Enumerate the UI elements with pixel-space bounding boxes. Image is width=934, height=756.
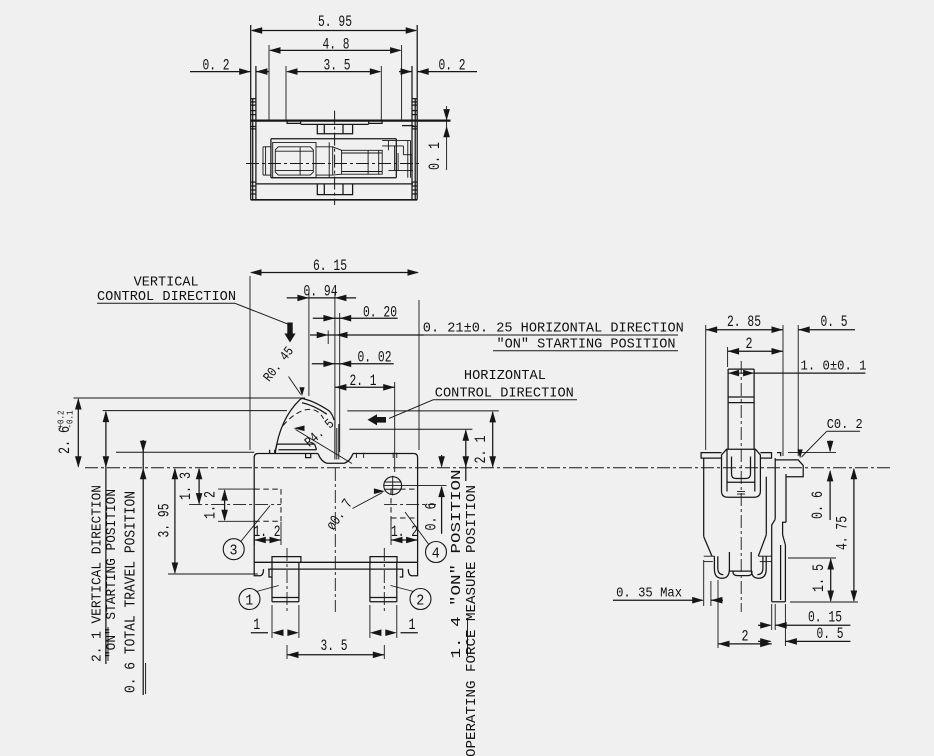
- front body top notch: [318, 454, 353, 464]
- svg-text:2: 2: [742, 627, 749, 645]
- side under clip: [729, 571, 752, 576]
- terminal leg 1: [272, 548, 299, 612]
- svg-text:C0. 2: C0. 2: [827, 417, 863, 433]
- top view left end contact: [263, 147, 271, 175]
- side right foot: [751, 552, 766, 578]
- side seating flange right: [758, 556, 771, 561]
- label operating force measure position: [464, 485, 480, 756]
- top view horizontal centerline: [246, 163, 421, 165]
- label R0.45: [261, 345, 304, 397]
- side post: [728, 369, 754, 449]
- dim 2 bottom: [718, 580, 772, 648]
- dim 0.1: [426, 106, 450, 170]
- dim 4.75: [790, 468, 858, 602]
- side body left wall: [704, 458, 712, 556]
- svg-text:1: 1: [253, 616, 260, 634]
- balloon 1: [239, 586, 279, 610]
- dim 1.2 right horizontal: [391, 520, 418, 545]
- svg-text:HORIZONTAL: HORIZONTAL: [464, 368, 546, 384]
- svg-text:1. 5: 1. 5: [810, 564, 828, 592]
- svg-text:0. 5: 0. 5: [817, 625, 844, 643]
- svg-text:3. 5: 3. 5: [321, 637, 348, 655]
- svg-text:1. 2: 1. 2: [254, 523, 281, 541]
- dim 3.95: [156, 468, 259, 574]
- balloon 3: [223, 506, 270, 560]
- side seating flange left: [704, 556, 715, 561]
- dim 0.15: [758, 604, 850, 630]
- label horizontal control direction: [389, 368, 577, 418]
- left contact dashed box: [189, 489, 281, 521]
- svg-text:5. 95: 5. 95: [318, 13, 352, 31]
- side clip: [722, 449, 761, 497]
- lever base: [270, 444, 317, 453]
- dim 0.5 top: [798, 313, 855, 456]
- on start level line left: [103, 410, 287, 412]
- svg-text:4. 75: 4. 75: [833, 516, 851, 550]
- side right tab: [760, 453, 780, 459]
- svg-text:4. 8: 4. 8: [323, 36, 350, 54]
- side right plate: [772, 458, 804, 545]
- body top level line left: [116, 451, 254, 453]
- svg-text:1. 2: 1. 2: [391, 523, 418, 541]
- on start level line right: [347, 410, 499, 412]
- dim 0.21 leader: [310, 331, 424, 345]
- label 0.21 horizontal direction: [423, 321, 684, 353]
- svg-text:R0. 45: R0. 45: [261, 345, 297, 386]
- dim 0.5 bottom: [758, 604, 850, 646]
- svg-text:-0.1: -0.1: [65, 410, 76, 428]
- dim 0.02: [312, 349, 394, 368]
- dim 1.2 left horizontal: [254, 522, 282, 545]
- svg-text:R4. 5: R4. 5: [302, 416, 338, 451]
- dim 2.6 with tolerance: [56, 398, 82, 468]
- dim 2.1 horizontal: [335, 372, 395, 472]
- svg-text:0. 15: 0. 15: [808, 609, 842, 627]
- right contact dashed box: [384, 489, 436, 521]
- svg-text:1. 2: 1. 2: [202, 491, 220, 519]
- svg-text:0. 5: 0. 5: [821, 313, 848, 331]
- top view right wall: [412, 25, 417, 200]
- svg-text:2: 2: [746, 335, 753, 353]
- dim 0.2 left: [190, 57, 269, 75]
- dim 3.5 top: [286, 57, 381, 121]
- dim 4.8: [269, 36, 402, 121]
- dim 1.5: [788, 558, 836, 602]
- top view vertical centerline: [334, 111, 336, 205]
- dim 0.35 max: [613, 560, 723, 606]
- dim 3.5 legs: [287, 637, 384, 659]
- svg-text:0. 6 TOTAL TRAVEL POSITION: 0. 6 TOTAL TRAVEL POSITION: [124, 491, 140, 693]
- dim 0.94: [287, 283, 356, 397]
- svg-text:0. 2: 0. 2: [439, 57, 466, 75]
- svg-text:3: 3: [230, 544, 238, 560]
- dim 0.2 right: [399, 57, 477, 75]
- vertical control arrow: [284, 323, 295, 343]
- svg-text:0. 35 Max: 0. 35 Max: [616, 586, 682, 602]
- svg-text:2. 6: 2. 6: [56, 426, 74, 454]
- dim 1 left leg: [251, 605, 299, 638]
- svg-text:2. 1: 2. 1: [350, 372, 377, 390]
- svg-text:0. 20: 0. 20: [363, 303, 397, 321]
- svg-text:1. 0±0. 1: 1. 0±0. 1: [801, 359, 867, 375]
- side body right inner wall: [758, 477, 766, 557]
- extension lines left contact: [218, 489, 256, 521]
- svg-text:6. 15: 6. 15: [313, 257, 347, 275]
- dim 5.95: [251, 13, 418, 34]
- svg-text:0. 21±0. 25 HORIZONTAL DIRECTI: 0. 21±0. 25 HORIZONTAL DIRECTION: [423, 321, 684, 337]
- top view slider right block: [342, 150, 383, 174]
- svg-text:2. 1: 2. 1: [472, 436, 490, 464]
- dim 0.6 side: [788, 441, 836, 521]
- top view cover top edge (heavy): [251, 119, 451, 121]
- top view bottom edge: [251, 199, 418, 201]
- dim 1 right leg: [370, 605, 418, 638]
- dim 0.6 total travel: [140, 440, 147, 695]
- dim 6.15: [250, 257, 419, 450]
- dim 2 top: [728, 335, 783, 367]
- top view center terminal block: [317, 124, 352, 133]
- dim 1.2 vertical: [202, 489, 228, 521]
- dim 0.6 front: [405, 455, 447, 534]
- svg-text:1. 3: 1. 3: [177, 472, 195, 500]
- balloon 2: [391, 586, 432, 610]
- svg-text:"ON" STARTING POSITION: "ON" STARTING POSITION: [497, 337, 676, 353]
- svg-text:OPERATING FORCE MEASURE POSITI: OPERATING FORCE MEASURE POSITION: [464, 485, 480, 756]
- main horizontal centerline: [85, 467, 891, 469]
- side left foot: [714, 552, 729, 578]
- label C0.2: [798, 417, 863, 458]
- top view slider left block: [273, 142, 316, 177]
- dim 1.0 tolerance: [728, 359, 866, 377]
- svg-text:3. 5: 3. 5: [324, 57, 351, 75]
- side right leg: [772, 545, 786, 602]
- svg-text:0. 2: 0. 2: [203, 57, 230, 75]
- svg-text:0. 94: 0. 94: [304, 283, 338, 301]
- svg-text:2: 2: [416, 593, 424, 609]
- svg-text:0. 02: 0. 02: [358, 349, 392, 367]
- svg-text:0. 6: 0. 6: [423, 503, 441, 531]
- contact hole: [383, 476, 405, 496]
- side left flange: [701, 453, 721, 459]
- svg-text:1. 4 "ON" POSITION: 1. 4 "ON" POSITION: [449, 470, 465, 659]
- svg-text:4: 4: [432, 546, 440, 562]
- lever pressed position dashed: [283, 409, 324, 425]
- front body outline: [254, 454, 417, 563]
- svg-text:0. 6: 0. 6: [809, 491, 827, 519]
- dim 1.3: [177, 468, 202, 505]
- top view right contact cluster: [382, 141, 413, 178]
- body top small ticks: [306, 453, 397, 458]
- svg-text:"ON" STARTING POSITION: "ON" STARTING POSITION: [105, 489, 120, 658]
- lever outline: [275, 398, 339, 459]
- svg-text:2. 1 VERTICAL DIRECTION: 2. 1 VERTICAL DIRECTION: [90, 485, 105, 662]
- svg-text:2. 85: 2. 85: [727, 313, 761, 331]
- top view left wall: [251, 25, 256, 200]
- dim 2.1 right: [472, 411, 496, 468]
- dim 2.85: [706, 313, 783, 456]
- svg-text:3. 95: 3. 95: [156, 504, 174, 538]
- front body bottom: [254, 562, 417, 577]
- dim 2.1 vertical left: [103, 411, 110, 664]
- side vertical centerline: [740, 361, 742, 612]
- on position line right: [349, 428, 472, 430]
- top view mechanism outline: [256, 139, 413, 184]
- balloon 4: [405, 512, 447, 563]
- svg-text:1: 1: [409, 616, 416, 634]
- svg-text:CONTROL DIRECTION: CONTROL DIRECTION: [97, 289, 236, 305]
- top view neck: [316, 142, 342, 177]
- svg-text:ø0. 7: ø0. 7: [323, 496, 356, 534]
- svg-text:1: 1: [245, 593, 253, 609]
- label vertical control direction: [97, 275, 289, 325]
- top view bottom tabs: [317, 184, 352, 195]
- front bottom tabs: [272, 557, 397, 563]
- label phi 0.7: [323, 488, 384, 533]
- svg-text:0. 1: 0. 1: [426, 142, 444, 170]
- terminal leg 2: [370, 548, 397, 612]
- top view cover tabs: [287, 121, 413, 126]
- dim 1.4 on position: [463, 429, 470, 656]
- front vertical centerline: [334, 468, 336, 612]
- svg-text:CONTROL DIRECTION: CONTROL DIRECTION: [435, 386, 574, 402]
- label R4.5: [294, 416, 353, 463]
- dim 0.20: [313, 293, 398, 452]
- free position line: [74, 397, 306, 399]
- horizontal control arrow: [368, 414, 387, 425]
